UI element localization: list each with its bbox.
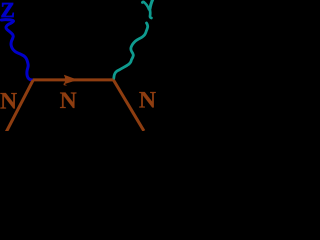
photon wavy line <box>114 23 148 80</box>
outgoing fermion line N (lower right leg) <box>113 80 143 131</box>
fermion arrow on internal line <box>64 75 78 85</box>
gamma left arm with ball terminal <box>142 2 149 10</box>
gamma right arm <box>150 0 153 9</box>
fermion arrow lower swept barb <box>64 83 68 86</box>
svg-text:N: N <box>0 88 17 114</box>
svg-text:N: N <box>60 88 77 114</box>
Z boson wavy propagator <box>1 20 33 80</box>
svg-text:N: N <box>139 88 156 114</box>
gamma stem and tail <box>150 8 152 18</box>
photon label gamma <box>142 0 153 18</box>
incoming fermion line N (lower left leg) <box>6 80 33 132</box>
internal fermion line N (horizontal propagator) <box>33 78 114 81</box>
